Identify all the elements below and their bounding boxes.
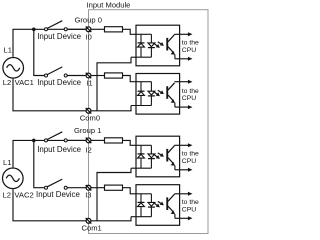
LED D3a (up) bbox=[138, 154, 145, 158]
LED D3b (down) bbox=[148, 154, 155, 159]
switch input device S2 bbox=[45, 67, 68, 77]
U3 output to CPU top bbox=[175, 143, 193, 147]
U4 LED bottom rail bbox=[131, 216, 151, 218]
svg-text:VAC2: VAC2 bbox=[14, 191, 33, 200]
AC source VAC2 bbox=[3, 168, 24, 189]
terminal I1 bbox=[86, 73, 92, 79]
optocoupler U3 box bbox=[136, 136, 180, 177]
svg-text:to the: to the bbox=[182, 151, 199, 158]
wire terminal I0 to resistor R1 bbox=[91, 28, 105, 30]
switch input device S3 bbox=[45, 132, 68, 142]
svg-text:CPU: CPU bbox=[182, 95, 196, 102]
LED D2a (up) bbox=[138, 91, 145, 95]
resistor R4 bbox=[105, 185, 123, 190]
wire branch down to I3 switch bbox=[34, 140, 45, 187]
svg-text:CPU: CPU bbox=[182, 158, 196, 165]
wire Com0 bus bbox=[91, 106, 131, 111]
U1 output to CPU top bbox=[175, 32, 193, 36]
switch input device S4 bbox=[45, 179, 68, 189]
terminal Com1 bbox=[86, 218, 92, 224]
U2 LED branch left wire bbox=[140, 82, 142, 92]
U1 light arrows bbox=[153, 42, 164, 48]
wire switch S3 to terminal I2 bbox=[67, 139, 86, 141]
U3 LED bottom rail bbox=[131, 167, 151, 169]
AC source VAC1 bbox=[3, 58, 24, 79]
U2 LED top rail bbox=[136, 81, 151, 83]
U2 output to CPU bottom bbox=[175, 103, 193, 109]
phototransistor Q3 bbox=[166, 146, 175, 166]
resistor R3 bbox=[105, 138, 123, 143]
optocoupler U2 box bbox=[136, 74, 180, 115]
svg-text:VAC1: VAC1 bbox=[15, 78, 34, 87]
U2 output to CPU top bbox=[175, 80, 193, 84]
U2 LED bottom rail bbox=[131, 105, 151, 107]
resistor R2 bbox=[105, 73, 123, 78]
phototransistor Q1 bbox=[166, 35, 175, 55]
optocoupler U4 box bbox=[136, 185, 180, 226]
phototransistor Q2 bbox=[166, 83, 175, 103]
svg-text:Input Module: Input Module bbox=[87, 0, 131, 9]
svg-text:Input Device: Input Device bbox=[37, 78, 81, 87]
U1 LED branch right wire bbox=[150, 34, 152, 43]
U1 LED branch left wire bbox=[140, 34, 142, 43]
terminal I0 bbox=[86, 27, 92, 33]
wire branch down to I1 switch bbox=[34, 29, 45, 75]
U3 output to CPU bottom bbox=[175, 166, 193, 172]
wire R1 into opto U1 bbox=[123, 29, 137, 34]
node junction group 0 bbox=[32, 28, 36, 32]
wire L2 return to Com0 bbox=[13, 79, 86, 111]
svg-text:I1: I1 bbox=[86, 79, 92, 88]
wire L1 top rail group 0 bbox=[13, 29, 86, 57]
wire terminal I2 to resistor R3 bbox=[91, 139, 105, 141]
wire R4 into opto U4 bbox=[123, 188, 137, 194]
U1 LED top rail bbox=[136, 33, 151, 35]
U3 LED branch right wire bbox=[150, 145, 152, 154]
svg-text:Input Device: Input Device bbox=[37, 145, 81, 154]
terminal I3 bbox=[86, 185, 92, 191]
wire switch S1 to terminal I0 bbox=[67, 28, 86, 30]
LED D4b (down) bbox=[148, 202, 155, 207]
U4 output to CPU top bbox=[175, 192, 193, 196]
svg-text:CPU: CPU bbox=[182, 206, 196, 213]
wire L1 top rail group 1 bbox=[13, 140, 86, 167]
svg-text:I0: I0 bbox=[86, 33, 92, 42]
resistor R1 bbox=[105, 27, 123, 32]
LED D1a (up) bbox=[138, 43, 145, 47]
phototransistor Q4 bbox=[166, 194, 175, 214]
svg-text:Group 0: Group 0 bbox=[75, 15, 102, 24]
svg-text:Group 1: Group 1 bbox=[74, 126, 101, 135]
terminal Com0 bbox=[86, 108, 92, 114]
svg-text:L1: L1 bbox=[4, 46, 12, 55]
wire com vertical group 0 bbox=[97, 57, 131, 111]
U3 light arrows bbox=[153, 153, 164, 159]
wire R3 into opto U3 bbox=[123, 140, 137, 145]
wire switch S2 to terminal I1 bbox=[67, 75, 86, 77]
svg-text:L2: L2 bbox=[3, 78, 11, 87]
U4 LED top rail bbox=[136, 193, 151, 195]
U3 LED top rail bbox=[136, 144, 151, 146]
svg-text:Input Device: Input Device bbox=[36, 190, 80, 199]
wire com vertical group 1 bbox=[97, 168, 131, 221]
U3 LED branch left wire bbox=[140, 145, 142, 154]
wire switch S4 to terminal I3 bbox=[67, 187, 86, 189]
svg-text:L1: L1 bbox=[3, 158, 11, 167]
U4 light arrows bbox=[153, 201, 164, 207]
U1 output to CPU bottom bbox=[175, 55, 193, 61]
wire terminal I1 to resistor R2 bbox=[91, 75, 105, 77]
LED D2b (down) bbox=[148, 91, 155, 96]
U4 LED branch right wire bbox=[150, 194, 152, 203]
U2 light arrows bbox=[153, 90, 164, 96]
optocoupler U1 box bbox=[136, 25, 180, 66]
svg-text:Com0: Com0 bbox=[80, 113, 100, 122]
svg-text:to the: to the bbox=[182, 199, 199, 206]
svg-text:to the: to the bbox=[182, 40, 199, 47]
svg-text:I3: I3 bbox=[85, 190, 91, 199]
U4 LED branch left wire bbox=[140, 194, 142, 203]
LED D1b (down) bbox=[148, 43, 155, 48]
svg-text:CPU: CPU bbox=[182, 47, 196, 54]
svg-text:to the: to the bbox=[182, 88, 199, 95]
LED D4a (up) bbox=[138, 202, 145, 206]
svg-text:I2: I2 bbox=[86, 145, 92, 154]
switch input device S1 bbox=[45, 21, 68, 31]
U4 output to CPU bottom bbox=[175, 214, 193, 220]
wire L2 return to Com1 bbox=[13, 189, 86, 221]
terminal I2 bbox=[86, 138, 92, 144]
svg-text:L2: L2 bbox=[3, 191, 11, 200]
svg-text:Com1: Com1 bbox=[82, 224, 102, 233]
U2 LED branch right wire bbox=[150, 82, 152, 91]
wire R2 into opto U2 bbox=[123, 76, 137, 82]
svg-text:Input Device: Input Device bbox=[37, 32, 81, 41]
U1 LED bottom rail bbox=[131, 56, 151, 58]
node junction group 1 bbox=[32, 139, 36, 143]
wire terminal I3 to resistor R4 bbox=[91, 187, 105, 189]
wire Com1 bus bbox=[91, 217, 131, 221]
Input Module outer box bbox=[89, 10, 209, 234]
